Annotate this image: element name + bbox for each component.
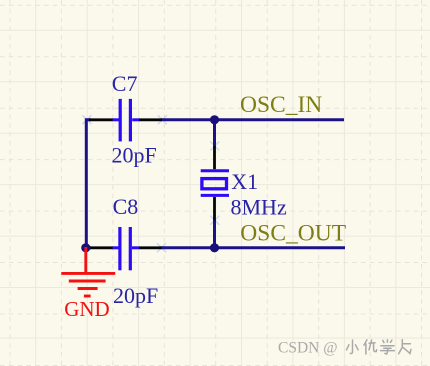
svg-text:CSDN @: CSDN @	[278, 340, 338, 357]
capacitor C8 plates	[118, 227, 121, 270]
crystal X1 top plate	[201, 169, 229, 172]
hotspot cross at C7 pin end	[158, 115, 167, 124]
junction dot top	[210, 115, 219, 124]
hotspot cross at X1 top pin end	[210, 142, 219, 151]
wire top-left corner segment	[86, 120, 91, 248]
svg-text:20pF: 20pF	[113, 283, 158, 308]
hotspot cross at C8 pin end	[157, 243, 166, 252]
svg-text:GND: GND	[64, 297, 110, 321]
wire top: OSC_IN net	[161, 118, 344, 121]
svg-text:OSC_OUT: OSC_OUT	[240, 221, 346, 247]
svg-text:C8: C8	[113, 194, 139, 219]
pin X1.1	[213, 146, 216, 169]
wire bottom-left stub	[85, 246, 91, 249]
hotspot cross at X1 bottom pin end	[210, 216, 219, 225]
hotspot cross at wire corner	[82, 115, 91, 124]
svg-text:OSC_IN: OSC_IN	[240, 92, 322, 118]
svg-text:20pF: 20pF	[112, 143, 157, 168]
svg-text:C7: C7	[112, 71, 138, 96]
pin C7.2	[139, 118, 162, 121]
wire bottom: OSC_OUT net	[161, 246, 346, 249]
pin X1.2	[213, 197, 216, 220]
junction dot at GND	[81, 243, 90, 252]
pin C8.2	[139, 246, 162, 249]
junction dot bottom	[210, 243, 219, 252]
pin C8.1	[89, 246, 113, 249]
svg-text:X1: X1	[231, 169, 258, 194]
crystal X1 bottom plate	[201, 194, 229, 197]
ground GND power symbol	[84, 247, 87, 272]
pin C7.1	[89, 118, 113, 121]
wire: crystal branch lower	[213, 220, 216, 248]
crystal X1 body	[202, 179, 227, 189]
capacitor C7 plates	[119, 99, 122, 141]
svg-text:8MHz: 8MHz	[231, 194, 287, 219]
wire: crystal branch upper	[213, 120, 216, 147]
watermark chinese glyphs	[347, 340, 412, 354]
